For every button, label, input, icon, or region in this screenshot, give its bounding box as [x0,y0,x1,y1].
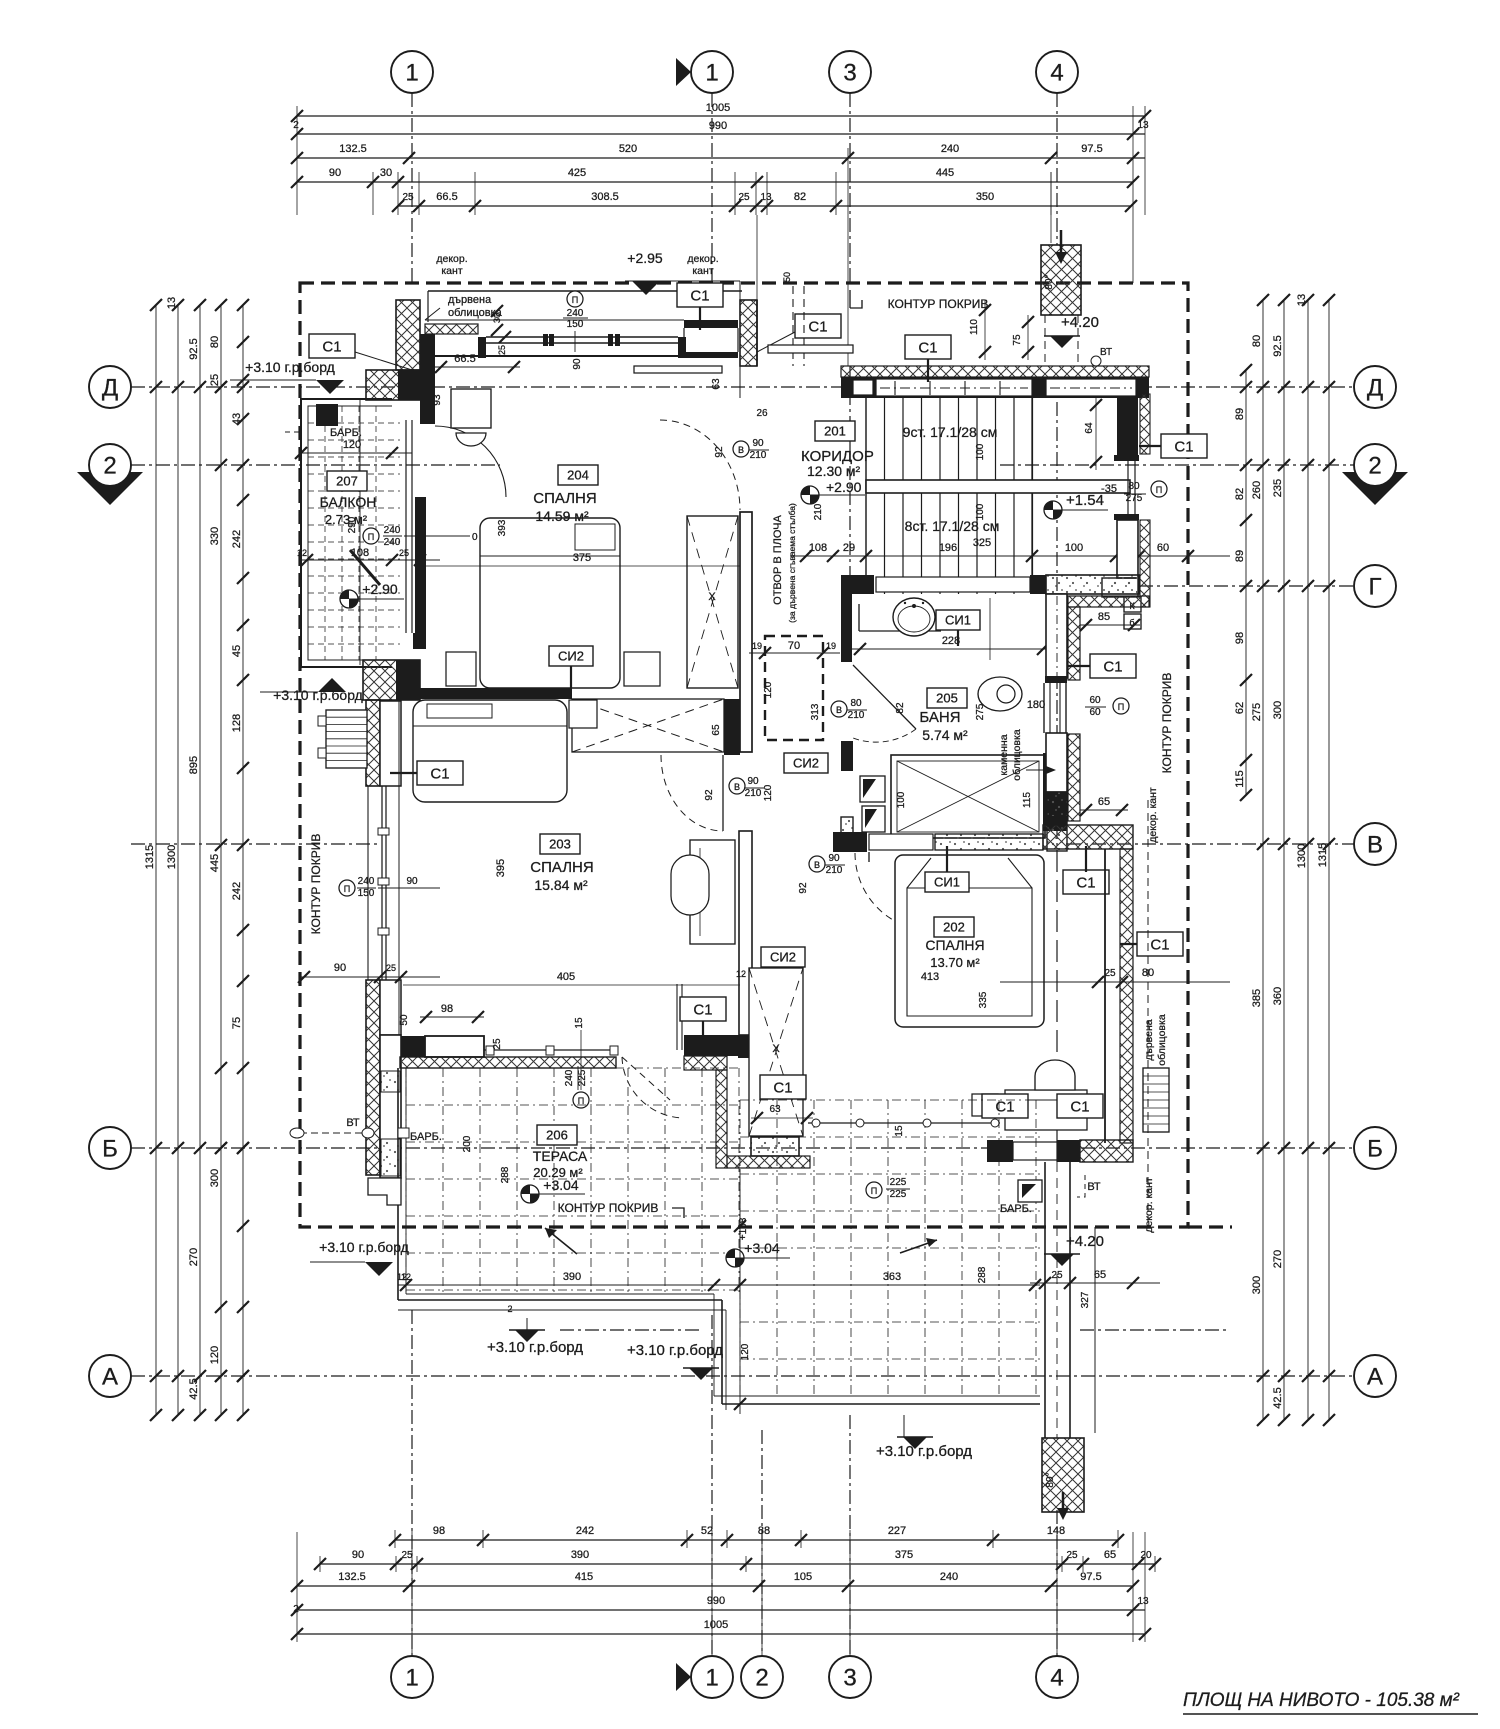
window: east 60/60 [1044,683,1066,733]
level +3.10 bottom-center [487,1304,583,1356]
axis circle 2 right with section arrow [1342,444,1408,505]
svg-text:Б: Б [1367,1135,1383,1162]
dim -35 and P 80/275 [1101,481,1167,504]
svg-text:300: 300 [1251,1276,1263,1294]
svg-text:С1: С1 [322,338,341,355]
svg-text:С1: С1 [1070,1098,1089,1115]
svg-text:80: 80 [1251,335,1263,347]
svg-text:313: 313 [810,703,821,720]
svg-text:СИ2: СИ2 [558,649,584,664]
svg-text:3: 3 [843,59,856,86]
wall: bedroom202 right wall [1105,849,1133,1143]
svg-text:413: 413 [921,971,939,983]
svg-text:П: П [572,295,578,305]
level +4.20 top [1044,314,1112,366]
axis circle 3 bottom [829,1656,871,1698]
svg-text:А: А [102,1363,118,1390]
svg-text:308.5: 308.5 [591,191,619,203]
C1 box top-middle [677,283,723,330]
bedroom 203 bed [413,700,567,802]
grid axis horizontal line A [131,1375,1354,1377]
grid axis vertical line 1 [411,93,413,1656]
svg-text:64: 64 [1084,422,1095,434]
level +3.10 top-left [230,359,344,394]
svg-text:облицовка: облицовка [448,307,503,319]
svg-text:декор.: декор. [687,253,718,265]
svg-text:КОНТУР ПОКРИВ: КОНТУР ПОКРИВ [1160,673,1174,774]
svg-text:385: 385 [1251,989,1263,1007]
svg-text:П: П [368,532,374,542]
svg-text:25: 25 [1051,1270,1063,1281]
svg-text:240: 240 [358,876,375,887]
SI2 box near shaft [784,753,828,773]
svg-text:12: 12 [401,1272,411,1282]
svg-text:дървена: дървена [1143,1019,1155,1060]
svg-text:+3.10 г.р.борд: +3.10 г.р.борд [245,359,335,375]
P window marker 240/150 top [563,291,588,370]
svg-text:С1: С1 [808,318,827,335]
svg-text:+3.10 г.р.борд: +3.10 г.р.борд [487,1339,583,1356]
room label 207 balcony [320,471,377,527]
C1 box corridor top [905,335,951,382]
P window marker 60/60 [1085,695,1129,718]
wall: pier left of tub [841,817,853,843]
SI1 box bedroom202 [925,846,969,892]
svg-text:75: 75 [1012,334,1023,346]
svg-text:227: 227 [888,1525,906,1537]
svg-text:115: 115 [1022,792,1033,808]
shaft dims 19 70 19 [749,640,840,801]
C1 box above bedroom202 [1063,846,1109,894]
stair dims 100 100 rotated [975,443,986,520]
svg-text:ТЕРАСА: ТЕРАСА [533,1148,588,1164]
svg-text:В: В [1367,831,1383,858]
svg-text:15.84 м²: 15.84 м² [534,877,588,893]
svg-text:СИ2: СИ2 [793,756,819,771]
svg-text:210: 210 [750,450,767,461]
axis circle 1b top with section arrow [676,51,733,93]
svg-text:25: 25 [497,345,507,355]
dim 65 stone [1080,796,1128,816]
axis circle V right [1354,823,1396,865]
svg-text:65: 65 [1094,1269,1106,1281]
right dimension chain [1234,294,1335,1426]
level +3.10 left of terrace [310,1239,411,1282]
BARB bottom right [1000,1203,1032,1215]
svg-text:25: 25 [401,1550,413,1561]
svg-text:895: 895 [188,756,200,774]
svg-text:облицовка: облицовка [1156,1014,1168,1066]
wall: room203 south wall left part [401,1036,484,1057]
grid axis horizontal line B [131,1147,1354,1149]
dims 413 335 bedroom202 [921,971,989,1008]
wall: corridor right wall lower hatched [1102,520,1150,607]
svg-text:100: 100 [1065,542,1083,554]
dim 64 rotated right of stairs [1084,398,1102,470]
terrace outline [398,1068,1040,1410]
wall: upper-left exterior pier [396,300,420,370]
svg-text:КОНТУР ПОКРИВ: КОНТУР ПОКРИВ [309,834,323,935]
svg-text:В: В [836,705,842,715]
terrace slope arrow right [900,1238,937,1253]
axis circle G right [1354,565,1396,607]
axis circle D left [89,366,131,408]
svg-text:97.5: 97.5 [1080,1571,1101,1583]
svg-text:108: 108 [809,542,827,554]
svg-text:С1: С1 [773,1079,792,1096]
svg-text:+4.20: +4.20 [1066,1233,1104,1250]
wall blocks terrace left end [368,1178,401,1205]
svg-text:66.5: 66.5 [454,353,475,365]
room label 205 banya [919,688,968,743]
svg-text:13.70 м²: 13.70 м² [930,955,980,970]
svg-text:90: 90 [334,962,346,974]
svg-text:390: 390 [563,1271,581,1283]
C1 box room203 bottom [680,997,726,1040]
wall: corridor north wall band [841,377,1149,398]
svg-text:СИ2: СИ2 [770,950,796,965]
svg-text:25: 25 [1104,968,1116,979]
axis circle 3 top [829,51,871,93]
walkway bottom chimney block [1042,1438,1084,1520]
svg-text:201: 201 [824,424,846,439]
room label 202 [925,917,984,970]
svg-text:300: 300 [209,1169,221,1187]
wall: bathroom-bedroom202 band [833,816,1133,852]
svg-text:60: 60 [1089,695,1101,706]
svg-text:150: 150 [358,888,375,899]
svg-text:2: 2 [1368,452,1381,479]
svg-text:С1: С1 [1174,438,1193,455]
door bedroom202 arc [855,852,933,931]
svg-text:80°: 80° [1044,274,1055,289]
svg-text:445: 445 [936,167,954,179]
svg-text:+168: +168 [738,1217,749,1240]
svg-text:+3.10 г.р.борд: +3.10 г.р.борд [627,1342,723,1359]
svg-text:75: 75 [231,1017,243,1029]
svg-text:390: 390 [571,1549,589,1561]
wall: left wall of bedroom 204 upper part [420,334,435,424]
svg-text:С1: С1 [1103,658,1122,675]
svg-text:декор.: декор. [436,253,467,265]
svg-text:360: 360 [1272,987,1284,1005]
svg-text:2: 2 [755,1664,768,1691]
svg-text:92.5: 92.5 [188,338,200,359]
svg-text:+3.10 г.р.борд: +3.10 г.р.борд [876,1443,972,1460]
svg-text:240: 240 [384,525,401,536]
wall: room203 south wall right part [677,984,749,1058]
svg-text:63: 63 [711,378,722,390]
wall: corner block at +3.10 [366,370,420,400]
balcony tile grid [308,400,400,665]
bottom dimension chain [291,1525,1161,1656]
svg-text:90: 90 [828,853,840,864]
svg-text:65: 65 [1098,796,1110,808]
svg-text:80: 80 [1128,481,1140,492]
svg-text:26: 26 [756,408,768,419]
svg-text:210: 210 [813,503,824,520]
svg-text:Д: Д [102,374,118,401]
svg-text:89: 89 [1234,408,1246,420]
svg-text:100: 100 [975,503,986,520]
svg-text:+1.54: +1.54 [1066,492,1104,509]
balcony dim 120 [295,439,412,459]
svg-text:200: 200 [462,1135,473,1152]
dim row 25 80 right [1000,967,1230,988]
svg-text:декор. кант: декор. кант [1147,787,1159,843]
terrace BARB left [398,1128,442,1143]
svg-text:98: 98 [441,1003,453,1015]
svg-text:4: 4 [1050,59,1063,86]
terrace railing with posts [808,1119,1000,1200]
svg-text:60: 60 [1157,542,1169,554]
svg-text:89: 89 [1234,550,1246,562]
svg-text:С1: С1 [995,1098,1014,1115]
svg-text:+3.04: +3.04 [744,1240,780,1256]
wall: block below balcony [363,660,420,700]
dim 25 15 240/225 bottom [492,1017,589,1108]
svg-text:225: 225 [577,1069,588,1086]
stair label 8st [905,518,1000,534]
svg-text:110: 110 [969,319,980,335]
svg-text:15: 15 [574,1017,585,1029]
stairwell treads [866,398,1033,594]
svg-text:БАРБ.: БАРБ. [1000,1203,1032,1215]
svg-text:300: 300 [1272,701,1284,719]
dim 180 window [1027,699,1045,711]
svg-text:2: 2 [293,1604,299,1615]
svg-text:235: 235 [1272,479,1284,497]
svg-text:С1: С1 [1076,874,1095,891]
stair landing handrail [866,480,1130,493]
svg-text:БАЛКОН: БАЛКОН [320,494,377,510]
svg-text:120: 120 [740,1343,751,1360]
dim row 90 25 left of terrace [298,962,440,983]
svg-text:П: П [1156,485,1162,495]
svg-text:363: 363 [883,1271,901,1283]
svg-text:90: 90 [572,358,583,370]
C1 box room203 left [390,761,463,785]
dekor kant label 1 [436,253,467,277]
stone cladding band upper [1068,596,1149,680]
grid axis horizontal line 2 [131,464,1354,466]
bedroom202 desk [1005,1090,1087,1130]
svg-text:275: 275 [975,703,986,720]
svg-text:240: 240 [941,143,959,155]
wall: bathroom left wall upper [841,594,852,662]
svg-text:50: 50 [399,1014,410,1026]
svg-text:С1: С1 [918,339,937,356]
wall: stub between 204 door and wall [740,300,757,366]
small K b symbols at bath corner [1124,597,1141,629]
svg-text:90: 90 [352,1549,364,1561]
svg-text:+3.10 г.р.борд: +3.10 г.р.борд [319,1239,409,1255]
shaft opening dashed rect [765,636,823,740]
svg-text:240: 240 [940,1571,958,1583]
svg-text:20: 20 [1140,1550,1152,1561]
walkway vertical walls [1045,1162,1095,1438]
svg-text:115: 115 [1234,770,1246,788]
svg-text:50: 50 [782,272,792,282]
axis circle A left [89,1355,131,1397]
svg-text:45: 45 [231,645,243,657]
svg-text:66.5: 66.5 [436,191,457,203]
svg-text:990: 990 [707,1595,725,1607]
door marker B 90/210 bedroom202 [798,853,845,894]
svg-text:393: 393 [497,519,508,536]
corridor dim row 108 29 196 100 25 60 [790,542,1230,562]
svg-text:+2.95: +2.95 [627,250,663,266]
wardrobe 204 dashed X [687,516,738,688]
svg-text:3: 3 [843,1664,856,1691]
terrace dim row 363 288 [740,1266,1041,1291]
svg-text:207: 207 [336,474,358,489]
svg-text:90: 90 [329,167,341,179]
svg-text:98: 98 [433,1525,445,1537]
svg-text:БАРБ.: БАРБ. [330,427,362,439]
svg-text:330: 330 [209,527,221,545]
svg-text:52: 52 [701,1525,713,1537]
svg-text:облицовка: облицовка [1011,729,1023,781]
svg-text:65: 65 [1104,1549,1116,1561]
svg-text:29: 29 [843,542,855,554]
level +3.10 bottom-right [627,1342,723,1380]
grid axis vertical line 1b [711,93,713,1656]
grid axis vertical line 2 [761,1430,763,1656]
dim 75 rotated corridor [1012,315,1034,360]
flower box outside right wall [1143,1068,1169,1132]
svg-text:СПАЛНЯ: СПАЛНЯ [533,490,596,507]
svg-text:205: 205 [936,691,958,706]
svg-text:1005: 1005 [704,1619,728,1631]
svg-text:кант: кант [441,265,462,277]
wall: bedroom202 south band [987,1140,1133,1162]
svg-text:350: 350 [976,191,994,203]
wall: left exterior wall lower cladding [366,980,401,1175]
svg-text:43: 43 [231,413,243,425]
C1 boxes at bedroom202 south [982,1094,1103,1118]
wall: corridor south band [841,575,1139,594]
terrace slope arrow [545,1228,577,1254]
axis circle B right [1354,1127,1396,1169]
svg-text:С1: С1 [430,765,449,782]
svg-text:13: 13 [166,297,178,309]
svg-text:203: 203 [549,837,571,852]
dims 393 375 room204 [420,519,740,566]
level +2.95 marker [625,250,740,312]
svg-text:25: 25 [738,192,750,203]
svg-text:260: 260 [1251,481,1263,499]
svg-text:-35: -35 [1101,483,1117,495]
svg-text:+2.90: +2.90 [826,479,862,495]
door marker B 80/210 bathroom [831,698,906,721]
washing machines [860,776,885,832]
level +1.54 corridor [1044,492,1108,519]
balcony level +2.90 [340,581,404,608]
svg-text:2: 2 [293,120,299,131]
window: left wall 240/150 [368,786,389,980]
wall: terrace top hatched band [400,1057,616,1068]
svg-text:290: 290 [347,516,358,533]
svg-text:В: В [734,782,740,792]
svg-text:82: 82 [895,702,906,714]
svg-text:кант: кант [692,265,713,277]
svg-text:225: 225 [890,1177,907,1188]
svg-text:П: П [578,1096,584,1106]
svg-text:1300: 1300 [166,845,178,869]
svg-text:дървена: дървена [448,294,492,306]
axis circle B(Б) left [89,1127,131,1169]
axis circle 4 top [1036,51,1078,93]
svg-text:62: 62 [1234,702,1246,714]
svg-text:325: 325 [973,537,991,549]
svg-text:12: 12 [297,548,307,558]
svg-text:88: 88 [758,1525,770,1537]
bathroom dim 228 [852,635,1049,655]
svg-text:120: 120 [343,439,361,451]
terrace dims 200 288 [462,1135,511,1183]
svg-text:14.59 м²: 14.59 м² [535,508,589,524]
svg-text:92: 92 [714,446,725,458]
svg-text:80: 80 [209,336,221,348]
svg-text:25: 25 [399,548,409,558]
svg-text:120: 120 [763,681,774,698]
section dash line y=1330 [560,1329,1230,1331]
axis circle 4 bottom [1036,1656,1078,1698]
chair room203 [671,855,709,915]
door corridor-204 and dims 63 26 92 [660,366,768,510]
svg-text:С1: С1 [690,287,709,304]
svg-text:В: В [738,445,744,455]
svg-text:X: X [708,591,716,603]
svg-text:БАРБ.: БАРБ. [410,1131,442,1143]
wall: pier right of window [684,320,738,358]
chimney block top [1041,230,1081,366]
P window marker 240/150 left [339,876,440,899]
svg-text:+3.10 г.р.борд: +3.10 г.р.борд [273,687,363,703]
bedroom202 chair [1035,1060,1075,1090]
wall: corridor right wall upper [1117,394,1150,455]
balcony dim 12 108 25 [297,547,440,585]
dims 395 405 room203 [403,859,740,985]
room label 203 [530,834,593,893]
wall: pier right of tub [1043,753,1067,831]
axis circle 1 top [391,51,433,93]
wall: balcony east pier [413,497,426,649]
svg-text:9ст. 17.1/28 см: 9ст. 17.1/28 см [903,424,998,440]
area note ПЛОЩ НА НИВОТО [1183,1690,1478,1714]
svg-text:Г: Г [1369,573,1382,600]
svg-text:БАНЯ: БАНЯ [919,709,960,726]
svg-text:92: 92 [704,789,715,801]
radiator on left wall [318,710,367,768]
svg-text:206: 206 [546,1128,568,1143]
svg-text:1: 1 [405,59,418,86]
svg-text:405: 405 [557,971,575,983]
svg-text:240: 240 [567,308,584,319]
roof contour dashed rectangle [300,283,1232,1227]
svg-text:97.5: 97.5 [1081,143,1102,155]
wardrobe hall dashed X [749,968,803,1136]
roof contour label top [850,290,988,311]
drain symbol walkway top [1018,1180,1042,1202]
svg-text:0: 0 [472,532,478,543]
window: corridor right 80/275 [1114,455,1139,520]
SI1 box bathroom [936,610,980,646]
svg-text:15: 15 [894,1125,905,1137]
dekor kant label right (rotated) [1147,787,1159,843]
svg-text:128: 128 [231,714,243,732]
